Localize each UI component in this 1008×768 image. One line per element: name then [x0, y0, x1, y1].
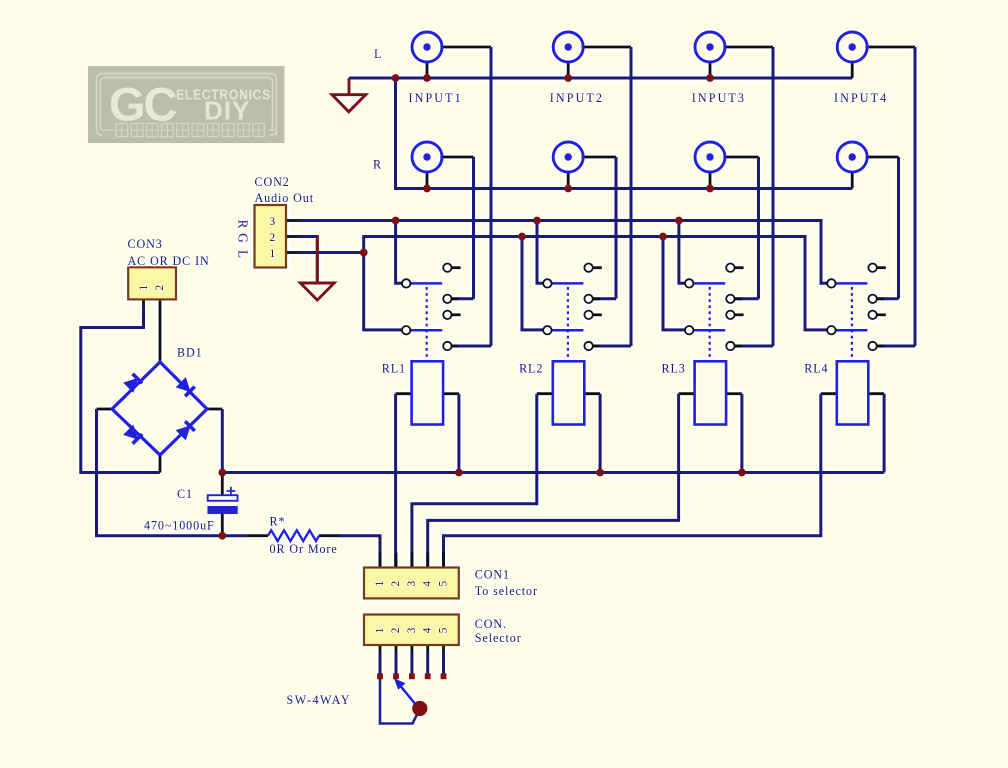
wire L-out riser RL1 — [364, 253, 402, 330]
relay RL1 armature lower — [410, 329, 442, 332]
wire R-out bus — [299, 221, 827, 284]
wire L-out riser RL3 — [663, 237, 685, 330]
wire INPUT4 R jack to vertical — [866, 156, 899, 159]
wire RL2 NO1 stub — [593, 297, 600, 300]
connector CON2 Audio Out — [255, 205, 287, 268]
diode BD1 bottom-left — [124, 426, 142, 444]
wire L-out from CON2 pin1 — [299, 251, 364, 254]
wire RL2 coil right lead — [584, 392, 600, 395]
wire RL2 NO2 to L2 — [593, 345, 631, 348]
label C1 — [177, 487, 193, 501]
watermark logo GC Electronics DIY — [88, 66, 285, 143]
wire RL2 coil right drop — [599, 394, 602, 473]
svg-text:Audio Out: Audio Out — [255, 191, 315, 205]
wire R* left stub — [248, 534, 268, 537]
wire R-out riser RL1 — [396, 221, 402, 284]
wire RL1 coil right drop — [457, 394, 460, 473]
wire CON1 pin1 stub — [379, 553, 382, 568]
relay RL4 contact NO1 — [868, 295, 876, 303]
wire CON2 pin3 stub — [286, 219, 301, 222]
wire bridge plus drop — [221, 409, 224, 473]
wire L-out riser RL2 — [522, 237, 543, 330]
wire INPUT3 R jack stem — [709, 171, 712, 189]
relay RL3 pole 2 — [685, 326, 693, 334]
wire bridge right stub — [207, 408, 222, 411]
relay RL3 pole 1 — [685, 279, 693, 287]
wire INPUT2 L jack to vertical — [582, 46, 631, 49]
RCA jack INPUT2 L — [553, 32, 583, 62]
svg-text:L: L — [374, 47, 382, 61]
RCA jack INPUT4 L — [837, 32, 867, 62]
relay RL3 armature upper — [693, 282, 725, 285]
label CON1 — [475, 568, 510, 582]
relay RL4 linkage (dashed) — [851, 287, 853, 361]
connector CON1 To selector — [364, 568, 459, 599]
label INPUT4 — [834, 91, 888, 105]
svg-text:CON2: CON2 — [255, 175, 290, 189]
relay RL2 pole 2 — [543, 326, 551, 334]
svg-text:3: 3 — [406, 580, 418, 587]
svg-text:4: 4 — [422, 627, 434, 634]
svg-text:4: 4 — [422, 580, 434, 587]
svg-text:GC: GC — [109, 78, 177, 131]
relay RL4 armature upper — [836, 282, 868, 285]
svg-text:RL3: RL3 — [662, 362, 686, 376]
svg-text:To selector: To selector — [475, 584, 538, 598]
svg-text:RL4: RL4 — [804, 362, 828, 376]
svg-text:1: 1 — [270, 248, 277, 260]
svg-text:RL1: RL1 — [382, 362, 406, 376]
wire CON1 pin2 stub — [395, 553, 398, 568]
svg-text:G: G — [236, 233, 251, 243]
wire RL4 NO2 to L4 — [877, 345, 915, 348]
label RL1 — [382, 362, 406, 376]
svg-text:BD1: BD1 — [177, 346, 203, 360]
wire INPUT4 L jack to vertical — [866, 46, 915, 49]
wire selector pin1 tail — [379, 652, 382, 674]
label 0R Or More — [270, 542, 338, 556]
diode BD1 top-left — [124, 374, 142, 392]
svg-text:RL2: RL2 — [519, 362, 543, 376]
relay RL1 linkage (dashed) — [426, 287, 428, 361]
wire selector pin4 tail — [426, 652, 429, 674]
wire selector pin4 lead — [426, 645, 429, 653]
wire selector pin5 tail — [442, 652, 445, 674]
label R (right channel) — [373, 157, 382, 171]
relay RL1 contact NC1 — [443, 264, 451, 272]
wire L4 vertical — [914, 47, 917, 346]
label RL2 — [519, 362, 543, 376]
relay RL2 contact NC1 — [584, 264, 592, 272]
wire CON1 pin3 stub — [410, 553, 413, 568]
wire selector pin5 lead — [442, 645, 445, 653]
wire RL4 NO1 stub — [877, 297, 884, 300]
svg-text:2: 2 — [154, 284, 166, 291]
bridge rectifier BD1 body — [112, 362, 207, 455]
relay RL4 pole 1 — [827, 279, 835, 287]
relay RL3 linkage (dashed) — [709, 287, 711, 361]
wire RL2 coil left lead — [537, 392, 553, 395]
wire RL3 coil right lead — [726, 392, 742, 395]
label CON2 — [255, 175, 290, 189]
wire RL2 NC2 stub — [593, 313, 602, 316]
wire bridge bottom stub — [159, 455, 162, 473]
svg-text:2: 2 — [390, 580, 402, 587]
wire R2 vertical — [615, 157, 618, 299]
svg-text:2: 2 — [270, 232, 277, 244]
relay RL3 coil — [695, 361, 727, 424]
wire RL1 NO1 to R1 — [452, 297, 474, 300]
label INPUT2 — [550, 91, 604, 105]
ground symbol (audio out) — [300, 236, 334, 300]
label BD1 — [177, 346, 203, 360]
diode BD1 bottom-right — [177, 421, 195, 439]
wire RL3 NO2 to L3 — [735, 345, 773, 348]
relay RL1 pole 1 — [402, 279, 410, 287]
pin numbers CON. Selector (1-5) — [374, 627, 450, 634]
svg-text:C1: C1 — [177, 487, 193, 501]
wire R3 vertical — [757, 157, 760, 299]
relay RL2 contact NO1 — [584, 295, 592, 303]
svg-text:3: 3 — [406, 627, 418, 634]
connector CON3 AC OR DC IN — [128, 267, 176, 299]
label AC OR DC IN — [128, 254, 210, 268]
relay RL4 coil — [837, 361, 869, 424]
wire RL1 NC1 stub — [452, 266, 461, 269]
RCA jack INPUT1 R — [412, 142, 442, 172]
wire RL2 coil to CON1 pin3 — [412, 394, 537, 568]
wire RL2 NO1 to R2 — [593, 297, 616, 300]
wire RL4 NO1 to R4 — [877, 297, 899, 300]
wire bridge minus rail — [97, 409, 249, 536]
wire INPUT3 R jack to vertical — [723, 156, 758, 159]
label L (left channel) — [374, 47, 382, 61]
wire RL1 NO1 stub — [452, 297, 459, 300]
wire RL4 NO2 stub — [877, 345, 884, 348]
svg-text:L: L — [236, 250, 251, 259]
relay RL4 pole 2 — [827, 326, 835, 334]
label RL4 — [804, 362, 828, 376]
wire RL3 coil right drop — [740, 394, 743, 473]
relay RL4 armature lower — [836, 329, 868, 332]
relay RL1 contact NC2 — [443, 311, 451, 319]
wire R* to CON1 pin1 — [339, 536, 380, 568]
pin numbers CON1 (1-5) — [374, 580, 450, 587]
wire RL3 NO2 stub — [735, 345, 742, 348]
svg-text:CON3: CON3 — [128, 237, 163, 251]
relay RL2 armature lower — [552, 329, 584, 332]
switch rotor hub — [412, 701, 427, 716]
relay RL3 contact NC2 — [726, 311, 734, 319]
svg-text:R: R — [373, 157, 382, 171]
label Selector — [475, 631, 522, 645]
wire INPUT1 R jack stem — [426, 171, 429, 189]
svg-text:AC OR DC IN: AC OR DC IN — [128, 254, 210, 268]
wire halo layer — [81, 32, 915, 724]
relay RL4 contact NC1 — [868, 264, 876, 272]
relay RL2 coil — [553, 361, 585, 424]
resistor R* — [268, 530, 319, 541]
wire RL4 coil left lead — [821, 392, 837, 395]
wire CON1 pin5 stub — [442, 553, 445, 568]
svg-text:1: 1 — [374, 580, 386, 587]
wire INPUT2 R jack stem — [567, 171, 570, 189]
RCA jack INPUT4 R — [837, 142, 867, 172]
svg-text:5: 5 — [438, 580, 450, 587]
label INPUT3 — [692, 91, 746, 105]
wire CON3 pin1 stub — [142, 300, 145, 308]
wire RL4 coil to CON1 pin5 — [444, 394, 821, 568]
wire GND riser and R-row bus — [396, 78, 853, 189]
relay RL4 contact NO2 — [868, 342, 876, 350]
svg-text:CON.: CON. — [475, 617, 507, 631]
wire INPUT4 L jack stem — [851, 61, 854, 78]
wire INPUT1 L jack to vertical — [440, 46, 491, 49]
wire selector pin2 lead — [395, 645, 398, 653]
RCA jack INPUT3 L — [695, 32, 725, 62]
wire selector pin2 tail — [395, 652, 398, 674]
RCA jack INPUT3 R — [695, 142, 725, 172]
wire L2 vertical — [630, 47, 633, 346]
label CON. — [475, 617, 507, 631]
wire CON1 pin4 stub — [426, 553, 429, 568]
relay RL2 contact NO2 — [584, 342, 592, 350]
svg-text:INPUT3: INPUT3 — [692, 91, 746, 105]
selector pin terminals — [377, 673, 446, 679]
wire INPUT1 L jack stem — [426, 61, 429, 78]
wire L1 vertical — [490, 47, 493, 346]
relay RL1 pole 2 — [402, 326, 410, 334]
relay RL3 contact NO1 — [726, 295, 734, 303]
wire R-out riser RL3 — [679, 221, 685, 284]
label INPUT1 — [409, 91, 463, 105]
svg-text:470~1000uF: 470~1000uF — [144, 518, 215, 532]
relay RL1 armature upper — [410, 282, 442, 285]
wire RL4 coil right lead — [868, 392, 884, 395]
wire RL1 coil to CON1 pin2 — [394, 394, 397, 568]
pin numbers CON3 (1,2) — [138, 284, 166, 291]
wire CON2 pin2 stub — [286, 235, 301, 238]
label 470~1000uF — [144, 518, 215, 532]
relay RL2 pole 1 — [543, 279, 551, 287]
label RL3 — [662, 362, 686, 376]
svg-text:0R Or More: 0R Or More — [270, 542, 338, 556]
svg-text:DIY: DIY — [204, 96, 250, 126]
wire INPUT4 R jack stem — [851, 171, 854, 189]
wire RL3 coil left lead — [679, 392, 695, 395]
RCA jack INPUT2 R — [553, 142, 583, 172]
svg-text:R: R — [236, 220, 251, 230]
wire GND bus top (L row) — [349, 77, 852, 80]
wire RL1 NC2 stub — [452, 313, 461, 316]
svg-text:2: 2 — [390, 627, 402, 634]
wire INPUT2 R jack to vertical — [582, 156, 616, 159]
pin numbers CON2 (3,2,1) — [270, 216, 277, 260]
relay RL4 contact NC2 — [868, 311, 876, 319]
wire SW-4WAY pole link — [380, 677, 420, 724]
svg-text:SW-4WAY: SW-4WAY — [287, 693, 351, 707]
svg-text:1: 1 — [138, 284, 150, 291]
relay RL1 contact NO2 — [443, 342, 451, 350]
wire RL4 NC2 stub — [877, 313, 886, 316]
svg-text:INPUT2: INPUT2 — [550, 91, 604, 105]
connector CON. Selector — [364, 615, 459, 646]
ground symbol (input bus) — [332, 78, 366, 112]
wire selector pin3 lead — [410, 645, 413, 653]
svg-text:3: 3 — [270, 216, 277, 228]
wire RL2 NO2 stub — [593, 345, 600, 348]
wire INPUT1 R jack to vertical — [440, 156, 473, 159]
wire R-out riser RL2 — [537, 221, 543, 284]
wire C1 bottom stem — [221, 514, 224, 536]
svg-text:R*: R* — [270, 514, 286, 528]
svg-text:CON1: CON1 — [475, 568, 510, 582]
label To selector — [475, 584, 538, 598]
wire R* right stub — [319, 534, 340, 537]
wire CON2 pin1 stub — [286, 251, 301, 254]
diode BD1 top-right — [177, 378, 195, 396]
net labels R G L (CON2) — [236, 220, 251, 259]
wire selector pin3 tail — [410, 652, 413, 674]
switch rotor arrow SW-4WAY — [395, 679, 421, 711]
wire selector pin1 lead — [379, 645, 382, 653]
wire bridge left stub — [97, 408, 113, 411]
wire INPUT2 L jack stem — [567, 61, 570, 78]
wire INPUT3 L jack stem — [709, 61, 712, 78]
wire RL4 coil right drop — [883, 394, 886, 473]
relay RL3 armature lower — [693, 329, 725, 332]
wire RL1 coil left lead — [396, 392, 412, 395]
svg-text:1: 1 — [374, 627, 386, 634]
wire RL2 NC1 stub — [593, 266, 602, 269]
svg-text:Selector: Selector — [475, 631, 522, 645]
relay RL3 contact NO2 — [726, 342, 734, 350]
relay RL3 contact NC1 — [726, 264, 734, 272]
label R* — [270, 514, 286, 528]
wire R4 vertical — [897, 157, 900, 299]
wire RL3 NO1 stub — [735, 297, 742, 300]
wire CON3 pin2 to bridge AC1 — [159, 300, 162, 363]
svg-text:5: 5 — [438, 627, 450, 634]
wire RL3 NC1 stub — [735, 266, 744, 269]
wire RL4 NC1 stub — [877, 266, 886, 269]
wire L3 vertical — [772, 47, 775, 346]
svg-text:INPUT4: INPUT4 — [834, 91, 888, 105]
label Audio Out — [255, 191, 315, 205]
label SW-4WAY — [287, 693, 351, 707]
wire C1 top stem — [221, 473, 224, 496]
wire INPUT3 L jack to vertical — [723, 46, 773, 49]
relay RL1 coil — [412, 361, 444, 424]
wire CON3 pin1 to bridge AC2 — [81, 306, 160, 473]
wire RL3 NO1 to R3 — [735, 297, 759, 300]
label CON3 — [128, 237, 163, 251]
relay RL2 linkage (dashed) — [567, 287, 569, 361]
wire L-out bus — [364, 237, 828, 330]
wire +V bus — [222, 471, 884, 474]
wire RL1 NO2 stub — [452, 345, 459, 348]
wire RL1 coil right lead — [443, 392, 459, 395]
relay RL2 armature upper — [552, 282, 584, 285]
wire R1 vertical — [472, 157, 475, 299]
capacitor C1 — [208, 487, 238, 514]
RCA jack INPUT1 L — [412, 32, 442, 62]
relay RL2 contact NC2 — [584, 311, 592, 319]
svg-text:INPUT1: INPUT1 — [409, 91, 463, 105]
wire RL3 NC2 stub — [735, 313, 744, 316]
relay RL1 contact NO1 — [443, 295, 451, 303]
wire RL1 NO2 to L1 — [452, 345, 491, 348]
wire RL3 coil to CON1 pin4 — [428, 394, 679, 568]
wire CON2 pin2 to ground — [299, 237, 317, 282]
